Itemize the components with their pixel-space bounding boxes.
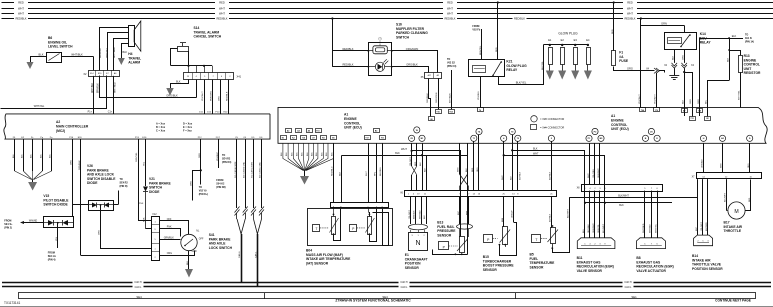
ECU circled pins cluster 4 70 72: [501, 128, 521, 141]
glow plug E3: [574, 38, 578, 71]
ECU circled pins cluster P2 P1 B5: [586, 128, 604, 141]
wires WHT BLK from ECU down to X6 pins 9 17 with twist: [458, 143, 469, 190]
wire CAN L bus: [2, 285, 771, 289]
svg-text:RED/BLK: RED/BLK: [15, 17, 26, 21]
svg-text:BRN: BRN: [467, 210, 469, 215]
svg-text:(PIN 4): (PIN 4): [48, 258, 56, 261]
wire right side of V26 to TO SE4-R2 reference: [113, 178, 128, 205]
ECU circled pin 71: [471, 135, 477, 141]
svg-text:RED: RED: [18, 1, 24, 5]
svg-text:YEL/ORG: YEL/ORG: [593, 169, 595, 178]
ECU top pin square T04: [449, 110, 455, 114]
svg-text:B9: B9: [698, 111, 700, 113]
wire from V26 into X12: [118, 248, 151, 250]
svg-text:BLK/WHT: BLK/WHT: [618, 195, 629, 198]
relay K14 ECU relay: [665, 32, 712, 50]
wire YEL from MC2 E16 down through diode V21: [144, 139, 146, 186]
svg-text:SENSOR: SENSOR: [530, 265, 545, 269]
svg-text:E = Xxx: E = Xxx: [183, 126, 193, 129]
wire BLK rail right segment to X8 pin 1: [511, 147, 584, 237]
wire ORG from MC2 P16 down: [71, 139, 73, 216]
svg-text:RED/BLK: RED/BLK: [624, 17, 635, 21]
svg-text:BLK: BLK: [533, 147, 538, 150]
svg-text:BLK: BLK: [187, 260, 189, 265]
svg-text:SE1: SE1: [631, 295, 637, 299]
sensor B04 mass air flow MAF intake air temperature IAT box: [306, 208, 393, 265]
svg-text:WHT: WHT: [627, 12, 633, 16]
wire RED tap from bus to K21 relay: [496, 1, 499, 60]
svg-text:ENGINE: ENGINE: [611, 118, 624, 122]
svg-text:RED/BLK: RED/BLK: [342, 47, 353, 51]
svg-text:BLK: BLK: [176, 80, 181, 83]
sensor E1 crankshaft position sensor: [405, 230, 428, 270]
wire BLK ground rail 2: [584, 202, 672, 207]
sensor B13 fuel rail pressure sensor: [433, 196, 473, 255]
wire X41 pin5 ALT/WHT down to MC2 pin D11: [202, 80, 204, 114]
connector X12 vertical strip: [151, 213, 159, 261]
connector X2: [83, 70, 119, 76]
svg-text:X41: X41: [237, 75, 242, 79]
svg-text:CONTROL: CONTROL: [611, 123, 627, 127]
svg-text:= X## CONNECTOR: = X## CONNECTOR: [540, 126, 564, 130]
ground below X41: [166, 88, 174, 96]
svg-text:GRN/YEL: GRN/YEL: [598, 223, 600, 233]
wire X12 pin9 to S41: [160, 227, 181, 237]
connector plug EGR valve actuator: [636, 238, 665, 249]
svg-text:D = Xxx: D = Xxx: [183, 123, 193, 126]
svg-text:ELP: ELP: [696, 227, 698, 231]
wires from cluster 4 70 72 down to X6: [502, 135, 522, 191]
svg-text:C1+: C1+: [108, 111, 113, 114]
svg-text:BLK/WHT: BLK/WHT: [567, 208, 569, 218]
wire RED tap from bus to fuse F1: [612, 1, 615, 50]
svg-text:BLK: BLK: [619, 204, 624, 207]
svg-text:B = Xxx: B = Xxx: [156, 126, 166, 129]
wire power bus WHT line 2: [2, 6, 773, 10]
wires from ECU right circles down to X7: [702, 143, 750, 172]
ground below glow plug E2: [558, 71, 566, 80]
svg-text:ORG: ORG: [71, 160, 73, 165]
ECU top pin square U2: [705, 117, 711, 121]
ECU pin squares row upper A2 A4 A6 T10: [286, 129, 322, 133]
wire RED/BLK tap from bus to S16: [331, 17, 368, 66]
wire WHT sensor supply rail: [401, 147, 460, 237]
wire BLK/YEL from K21 to glow plug bus: [499, 45, 544, 85]
svg-text:P1+: P1+: [88, 111, 93, 114]
wire X12 pin5 GRN/BLK to S41: [160, 238, 181, 240]
svg-text:GRN/WHT: GRN/WHT: [593, 223, 595, 233]
MC2 bottom pin labels: [13, 137, 263, 139]
svg-text:ORG: ORG: [627, 67, 633, 71]
svg-text:(PIN D): (PIN D): [120, 185, 128, 188]
connector X6 long strip: [400, 191, 556, 197]
svg-text:CAN H: CAN H: [400, 281, 407, 284]
diode V15 pilot disable switch diode: [43, 194, 73, 228]
svg-text:WHT/YEL: WHT/YEL: [34, 105, 45, 108]
svg-text:E2: E2: [561, 38, 565, 42]
svg-text:ORG: ORG: [748, 163, 750, 168]
wire ELK to off-page TO 1E1/N: [698, 34, 754, 117]
wire X41 pin6 ORG down to MC2 pin P10: [219, 80, 221, 114]
svg-text:WHT: WHT: [502, 175, 504, 180]
svg-text:A7: A7: [683, 110, 685, 113]
svg-text:WHT: WHT: [588, 173, 590, 178]
wire CAN pair 2 from MC2 D5 D6: [251, 139, 264, 234]
svg-text:GRN/LP: GRN/LP: [512, 210, 514, 218]
svg-text:RED: RED: [447, 1, 453, 5]
svg-text:T: T: [316, 227, 318, 231]
ECU circled pin D: [747, 135, 753, 141]
wire ORG/BLK from S16 to connector X5: [392, 63, 429, 73]
ground below glow plug E3: [571, 71, 579, 80]
svg-text:SWITCH: SWITCH: [396, 35, 410, 39]
svg-text:WHT: WHT: [401, 147, 407, 151]
wire X5/A5 ORG/GRN down to ECU: [436, 78, 438, 109]
wire CAN H thick drop: [238, 234, 241, 282]
glow plug E2: [561, 38, 565, 71]
wire GRN tap from RED/BLK bus to K14 relay: [640, 17, 685, 32]
wire S14 right pin down to X41 rail: [188, 51, 190, 66]
svg-text:SWITCH DIODE: SWITCH DIODE: [43, 203, 68, 207]
svg-text:WHT: WHT: [18, 12, 24, 16]
svg-text:BLK/BLU: BLK/BLU: [380, 167, 382, 176]
wire power bus RED line 1: [2, 0, 773, 4]
svg-text:LEVEL SWITCH: LEVEL SWITCH: [48, 45, 73, 49]
svg-text:(PIN D8): (PIN D8): [216, 186, 226, 189]
connector X4 inline: [646, 68, 659, 74]
svg-text:RED: RED: [219, 1, 225, 5]
switch S16 muffler filter parked cleaning switch: [368, 23, 429, 76]
svg-text:TX1173141: TX1173141: [4, 301, 20, 305]
wires from ECU circled pins down to X6 crossing pair: [410, 143, 427, 190]
wire BLK/WHT down to fuel temperature sensor return: [551, 198, 569, 253]
svg-text:SIG (CAN L) WIRE: SIG (CAN L) WIRE: [251, 161, 254, 178]
svg-text:WHT/RED: WHT/RED: [114, 47, 116, 58]
ECU top pin square T6: [478, 108, 484, 112]
svg-text:BLK: BLK: [340, 171, 342, 176]
svg-text:U8: U8: [430, 119, 432, 121]
motor B17 intake air throttle: [724, 179, 751, 233]
wire X5/A17 ORG/BLK down to ECU: [427, 79, 431, 117]
svg-text:SENSOR: SENSOR: [483, 268, 498, 272]
svg-text:ORG/BLK: ORG/BLK: [406, 63, 418, 67]
connector oval above crankshaft sensor: [409, 224, 428, 230]
svg-text:WHT: WHT: [18, 7, 24, 11]
svg-text:Y11: Y11: [381, 138, 384, 140]
svg-text:ORG/BLK: ORG/BLK: [588, 223, 590, 233]
ECU top pin square U8: [429, 117, 435, 121]
ground below oil level switch: [27, 62, 34, 69]
svg-text:ORG: ORG: [219, 96, 221, 101]
ground below glow plug E1: [546, 71, 554, 80]
off-page reference TO V02 S2 and wire WHT/BLK down to ECU: [447, 58, 457, 109]
svg-text:RED/BLK: RED/BLK: [342, 63, 353, 67]
svg-text:ORG: ORG: [199, 153, 201, 158]
svg-text:BLK: BLK: [425, 168, 427, 172]
wire CAN L thick drop: [255, 234, 258, 287]
ground under MC2 left pins: [28, 182, 37, 191]
svg-text:WHT/BLK: WHT/BLK: [71, 53, 83, 57]
ECU pin square Y17: [365, 136, 371, 140]
svg-text:U7: U7: [312, 138, 314, 140]
wire S14 left pin down to X41 rail: [171, 49, 178, 66]
svg-text:BLK: BLK: [466, 168, 468, 172]
svg-text:CAN L: CAN L: [255, 251, 258, 258]
fuse F1: [612, 51, 629, 66]
svg-text:V02 Fb: V02 Fb: [472, 28, 480, 31]
wire ORG from fuse F1 to connector X4: [614, 67, 655, 71]
svg-text:RED: RED: [415, 161, 417, 166]
ground below glow plug E4: [584, 71, 592, 80]
svg-text:W/WND: W/WND: [29, 220, 38, 222]
svg-text:ORG: ORG: [690, 99, 692, 104]
svg-text:ELP: ELP: [458, 211, 460, 215]
svg-text:F = Xxx: F = Xxx: [183, 130, 192, 133]
svg-text:CAN L: CAN L: [135, 286, 142, 289]
svg-text:BLK: BLK: [682, 99, 684, 104]
diode V26 park brake and axle lock switch disable diode: [87, 164, 116, 211]
svg-text:E1: E1: [548, 38, 552, 42]
svg-text:A17: A17: [428, 74, 431, 77]
svg-text:CAN L: CAN L: [401, 286, 408, 289]
ECU circled pins cluster 29 B E: [642, 128, 660, 141]
svg-text:N: N: [415, 240, 420, 247]
wire speaker pin1 BRN/BLK to X2: [100, 28, 129, 71]
svg-text:B2: B2: [375, 131, 377, 133]
svg-text:(PIN 1#): (PIN 1#): [745, 40, 754, 43]
ground under ECU fan: [300, 176, 309, 185]
svg-text:RELAY: RELAY: [506, 68, 518, 72]
ECU top pin square Y70: [654, 108, 660, 112]
svg-text:WHT: WHT: [219, 7, 225, 11]
svg-text:WHT: WHT: [458, 167, 460, 172]
wire from V15 bottom to FROM SE1/Lb reference: [48, 222, 59, 261]
wire from V26 down-right to X12: [99, 204, 119, 248]
wires X8 down to EGR valve actuator plug: [643, 191, 658, 238]
svg-text:ALARM: ALARM: [128, 61, 140, 65]
wire from pin 2 down to X6 pin 21: [550, 141, 552, 190]
svg-text:ORG/GRN: ORG/GRN: [436, 92, 438, 103]
connector X5: [421, 73, 442, 79]
svg-text:BLU: BLU: [583, 229, 585, 233]
wire WHT/YEL into ECU: [740, 107, 742, 109]
svg-text:A5: A5: [437, 74, 439, 77]
svg-text:CAN L: CAN L: [625, 286, 632, 289]
svg-text:WHT/YEL: WHT/YEL: [655, 223, 657, 233]
connector X8 strip: [577, 185, 663, 192]
svg-text:M: M: [734, 209, 738, 215]
wire WHT rail right segment to X8 pin 9: [503, 152, 605, 237]
svg-text:ORG: ORG: [682, 55, 684, 60]
wire X12 pin1 OFF to S41: [160, 219, 189, 235]
svg-text:K9: K9: [322, 138, 324, 140]
svg-text:RED: RED: [749, 197, 751, 202]
wires X7 down to intake air throttle plug: [696, 179, 708, 235]
ground below S41: [185, 269, 193, 278]
svg-text:RED: RED: [627, 1, 633, 5]
wire power bus RED/BLK line 4: [2, 16, 773, 20]
off-page arrow FROM SE1/S+ (PIN 2): [4, 220, 43, 230]
diode V21 park brake switch diode: [143, 177, 172, 229]
svg-text:ORG: ORG: [477, 167, 479, 172]
svg-text:WHT: WHT: [366, 170, 368, 176]
svg-text:PNK: PNK: [144, 217, 146, 222]
ECU pin squares row lower K1 K2 K4 U7 K9 B1: [281, 136, 337, 140]
svg-text:SENSOR: SENSOR: [405, 266, 420, 270]
footer divider line: [0, 306, 773, 307]
svg-text:Y70: Y70: [655, 110, 658, 112]
wires from ECU P-cluster to X8: [588, 143, 600, 184]
svg-text:ORG: ORG: [698, 99, 700, 104]
legend X-connector symbols: [531, 116, 565, 130]
svg-text:SE4: SE4: [136, 295, 142, 299]
svg-text:BLK: BLK: [39, 53, 44, 57]
svg-text:CAN H: CAN H: [624, 281, 631, 284]
svg-text:P: P: [352, 227, 354, 231]
MC2 top pin labels D11 D12 P10 E22: [199, 112, 228, 114]
wire YEL/BLU from K21 down to ECU pin: [478, 77, 480, 108]
svg-text:BLK: BLK: [395, 152, 400, 155]
svg-text:CAN H: CAN H: [134, 281, 141, 284]
svg-text:C = Xxx: C = Xxx: [156, 130, 166, 133]
svg-text:Y10: Y10: [436, 111, 439, 113]
svg-text:GRN/BLK: GRN/BLK: [702, 159, 704, 168]
svg-text:ORG: ORG: [190, 181, 192, 186]
svg-text:YEL/WHT: YEL/WHT: [409, 209, 411, 219]
svg-text:A2: A2: [287, 130, 289, 133]
svg-text:SIG (CAN H) WIRE: SIG (CAN H) WIRE: [234, 161, 237, 178]
svg-text:BLK: BLK: [420, 162, 422, 166]
wire YEL/WHT from X4 down to ECU: [639, 19, 664, 108]
svg-text:CONTINUE NEXT PAGE: CONTINUE NEXT PAGE: [715, 299, 751, 303]
svg-text:ELP/RED: ELP/RED: [706, 222, 708, 231]
svg-text:(PIN D+): (PIN D+): [199, 193, 209, 196]
wire from MC2 D17 down to FROM reference: [216, 139, 231, 189]
wires X8 down to EGR valve sensor plug: [583, 191, 605, 238]
switch S14 travel alarm cancel switch: [178, 26, 222, 52]
ECU circled pins cluster W 25 B1: [409, 127, 426, 142]
svg-text:BLU: BLU: [706, 99, 708, 104]
svg-text:RED/BLK: RED/BLK: [216, 17, 227, 21]
svg-text:BLU/WHT: BLU/WHT: [603, 223, 605, 233]
svg-text:PNK/ORG: PNK/ORG: [210, 91, 212, 101]
svg-text:BRN/BLK: BRN/BLK: [413, 210, 415, 219]
svg-text:WHT/RED: WHT/RED: [643, 223, 645, 233]
wire from MC2 P12 down with branch: [190, 139, 208, 200]
svg-text:A = Xxx: A = Xxx: [156, 123, 166, 126]
svg-text:BRN/YEL: BRN/YEL: [480, 45, 482, 55]
wires from pins 71 74 down to X6 pins 14 16: [472, 135, 479, 191]
svg-text:(T): (T): [378, 37, 381, 41]
wire GRN/BLK from MC2 E20 into X12 pin 2: [81, 255, 152, 257]
ECU circled pin H: [700, 135, 706, 141]
svg-text:OFF: OFF: [167, 219, 172, 221]
svg-text:BLK: BLK: [123, 51, 128, 54]
svg-text:GRN: GRN: [661, 21, 667, 25]
svg-text:= X## CONNECTOR: = X## CONNECTOR: [540, 117, 564, 121]
svg-text:WHT/BLK: WHT/BLK: [450, 93, 452, 103]
svg-text:ORG/BLK: ORG/BLK: [427, 93, 429, 103]
ECU top pin square Y10: [436, 110, 442, 114]
svg-text:B1: B1: [332, 138, 334, 140]
connector X7 strip: [692, 173, 762, 179]
svg-text:U2: U2: [706, 118, 708, 120]
resistor R13 engine control unit resistor: [728, 49, 761, 108]
wire PPL from ECU to MAF pin 2: [375, 143, 377, 203]
svg-text:BLK/YEL: BLK/YEL: [516, 81, 527, 85]
svg-text:ORG: ORG: [99, 230, 101, 235]
wire from V26 left to MC2 wires: [73, 204, 89, 206]
wires BLK from MC2 pins D1 E2 Ps Pp Pa to common ground: [13, 139, 52, 182]
wire horizontal rail above X41: [171, 65, 213, 73]
wire speaker pin4 BLK to ground: [122, 44, 129, 59]
wire fan from ECU pins to common ground: [281, 143, 334, 176]
svg-text:YEL/WHT: YEL/WHT: [410, 156, 412, 166]
glow plug E4: [586, 38, 590, 71]
svg-text:BLK/YEL: BLK/YEL: [542, 60, 544, 70]
connector plug EGR valve sensor: [577, 238, 615, 249]
wire power bus WHT line 3: [2, 11, 773, 15]
svg-text:WHT/BLK: WHT/BLK: [650, 223, 652, 233]
wire WHT from ECU W to MAF pin 1: [366, 143, 368, 203]
svg-text:ZTRHW-IN SYSTEM FUNCTIONAL SCH: ZTRHW-IN SYSTEM FUNCTIONAL SCHEMATIC: [335, 299, 411, 303]
wire BLK sensor return rail: [342, 152, 468, 254]
svg-text:RED: RED: [612, 29, 614, 34]
svg-text:YEL/WHT: YEL/WHT: [701, 221, 703, 231]
svg-text:T6: T6: [479, 110, 481, 112]
alarm H4 travel alarm: [128, 21, 141, 65]
svg-text:BRN: BRN: [502, 217, 504, 222]
svg-text:ELE (CAN H) GND: ELE (CAN H) GND: [242, 161, 245, 178]
wire S41 to ground: [187, 251, 189, 269]
glow plug E1: [548, 38, 552, 71]
svg-text:BLK: BLK: [424, 215, 426, 219]
harness section box SE4 SE4 SE1: [19, 293, 756, 300]
wire GRN/BLK from MC2 E20 down: [79, 139, 81, 255]
svg-text:YEL/BLU: YEL/BLU: [478, 91, 480, 100]
wires from X6 down to crankshaft sensor: [409, 196, 427, 224]
svg-text:RELAY: RELAY: [700, 41, 712, 45]
svg-text:RED/BLK: RED/BLK: [444, 17, 455, 21]
svg-text:OFF: OFF: [199, 238, 204, 240]
lamp inside S16: [368, 59, 393, 71]
relay K21 glow plug relay: [469, 60, 528, 77]
svg-text:RED/BLK: RED/BLK: [227, 91, 229, 101]
ECU pin square Y11: [380, 136, 386, 140]
svg-text:ORG/BLK: ORG/BLK: [166, 93, 178, 97]
svg-text:CONTROL: CONTROL: [344, 121, 360, 125]
svg-text:VALVE ACTUATOR: VALVE ACTUATOR: [636, 269, 666, 273]
wire X2/E20 BRN/BLK down then right to X41: [97, 76, 196, 98]
ECU top pin square Y11: [690, 117, 696, 121]
connector X41: [184, 73, 242, 80]
svg-text:A6: A6: [308, 130, 310, 133]
svg-text:X2: X2: [83, 72, 87, 76]
svg-text:A1: A1: [611, 114, 615, 118]
svg-text:FUSE: FUSE: [619, 59, 629, 63]
svg-text:ELP/BLK: ELP/BLK: [550, 213, 552, 222]
svg-text:BLK: BLK: [510, 176, 512, 180]
wire BLK rail to MAF pin 9: [340, 156, 342, 203]
svg-text:Y17: Y17: [365, 138, 368, 140]
svg-text:ELK: ELK: [732, 35, 737, 38]
svg-text:WHT/YEL: WHT/YEL: [107, 47, 109, 58]
svg-text:UNIT (ECU): UNIT (ECU): [611, 127, 629, 131]
svg-text:A1: A1: [344, 113, 348, 117]
svg-text:PNK: PNK: [139, 203, 144, 205]
MC2 top pin labels P1+ C1+: [88, 111, 113, 114]
svg-text:WHT/RED: WHT/RED: [115, 82, 117, 93]
